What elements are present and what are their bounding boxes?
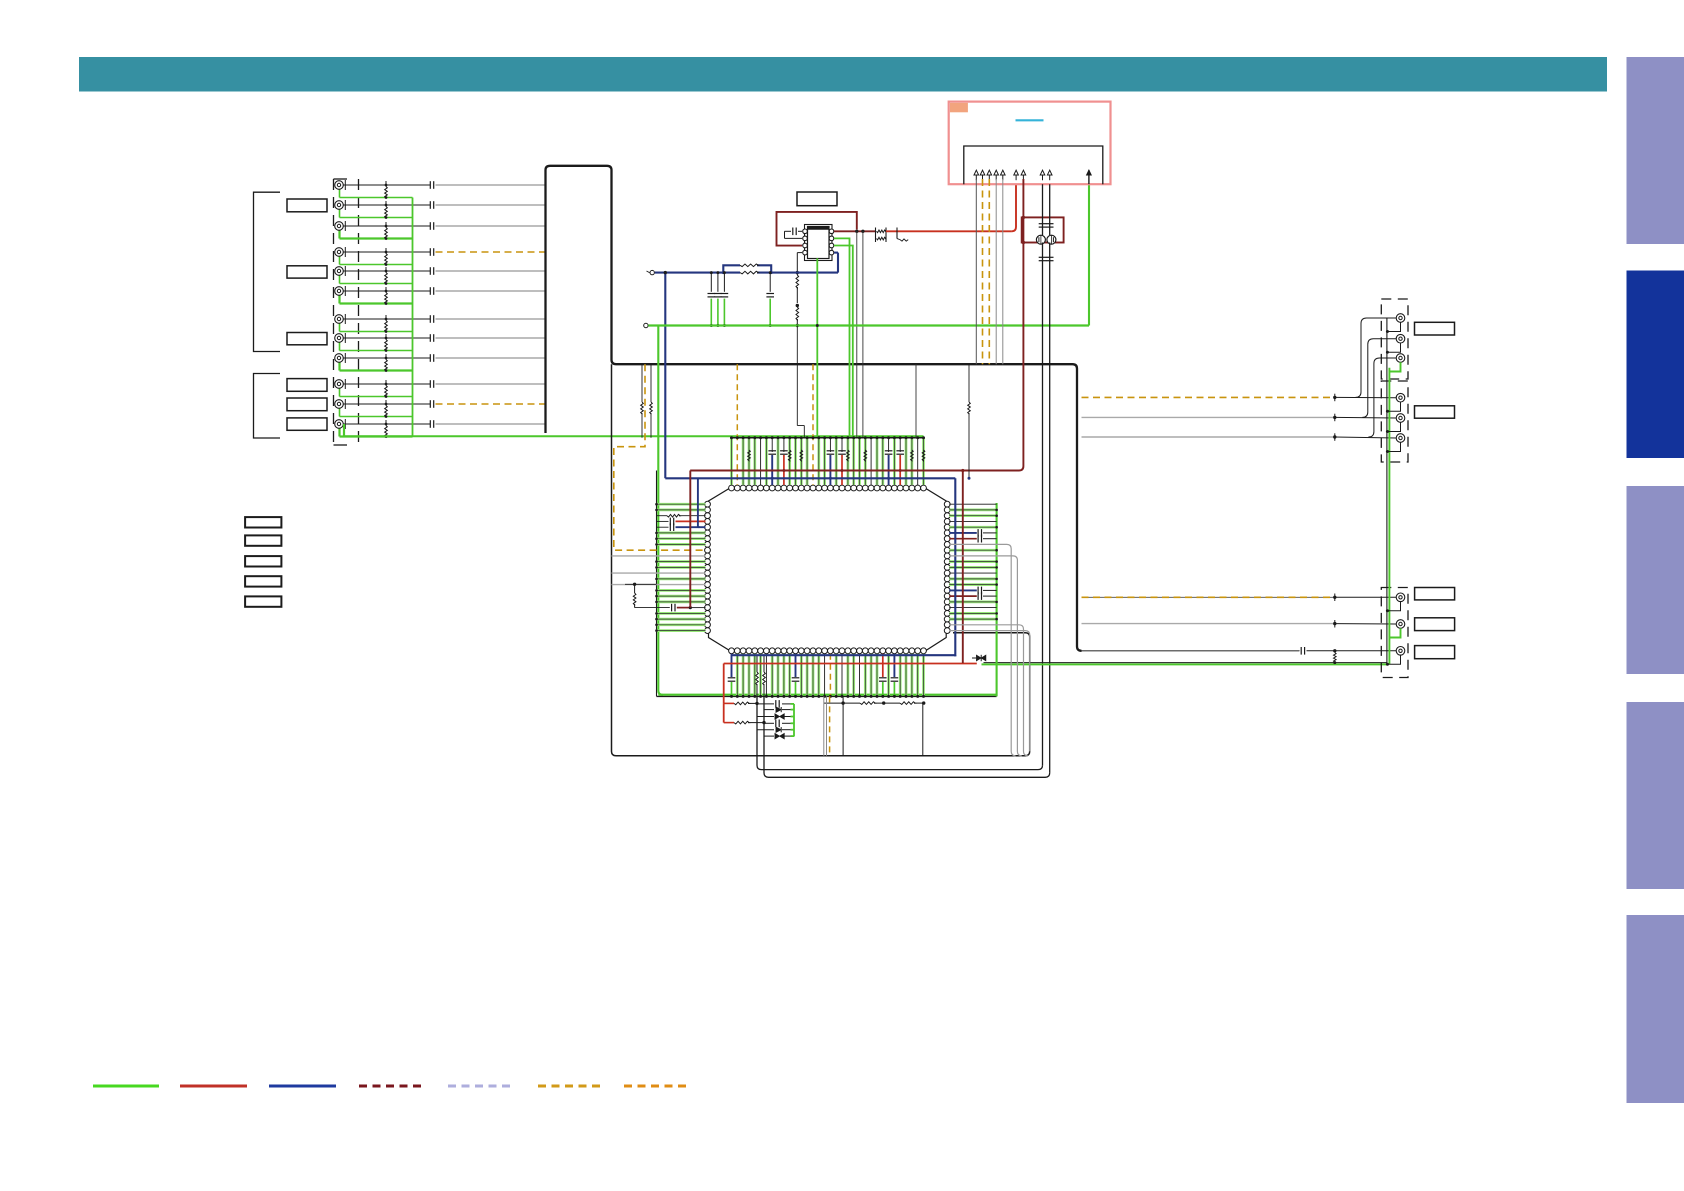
right label box 3 <box>1415 588 1455 600</box>
pulldown resistor row 10 <box>385 386 388 397</box>
U1 bottom pins <box>729 648 735 654</box>
green return segment row 12 <box>338 428 340 437</box>
left connector pin 9 <box>343 357 430 359</box>
pulldown resistor row 8 <box>385 340 388 351</box>
U1 right side green bus <box>996 503 998 696</box>
gray signal wire row 9 <box>436 357 546 359</box>
legend green solid wire swatch <box>93 1085 159 1088</box>
legend blue solid wire swatch <box>269 1085 336 1088</box>
gold dashed wire to middle-right connector <box>1082 596 1335 598</box>
right connector pin 8 <box>1396 620 1405 629</box>
gray signal wire to lower-right (B) <box>950 556 1022 756</box>
power connector body <box>964 146 1103 184</box>
pulldown resistor row 11 <box>385 406 388 417</box>
bus drop resistors left of U1 <box>641 364 643 402</box>
gray wire to right connector row3 <box>1082 436 1335 438</box>
left connector pin 3 <box>343 225 430 227</box>
long green wire to right connector <box>982 663 1389 665</box>
dark red bus above U1 <box>690 470 963 472</box>
navy bus above U1 <box>665 477 955 479</box>
green vertical bus of left connector <box>412 198 414 437</box>
red wire from resistors to power entry <box>886 230 1012 232</box>
sense wire 1 from power connector <box>975 179 977 364</box>
MOSFET switch protection box (dark red) <box>1022 217 1064 242</box>
gold dashed wire into U1 left side <box>614 364 706 550</box>
test point stub TP1 <box>896 228 898 239</box>
pulldown resistor row 7 <box>385 321 388 332</box>
green ground bus <box>648 324 1089 326</box>
MOSFET return loop A (bottom) <box>757 696 1043 769</box>
green ground bus below U1 <box>658 694 996 696</box>
right connector CN5 dashed outline <box>1381 588 1408 678</box>
right connector pin 5 <box>1396 414 1405 423</box>
green return wires from U2 <box>816 258 818 438</box>
series resistors in U1 top fan <box>748 450 751 461</box>
gray wire to middle-right connector row3 with cap <box>1298 650 1301 652</box>
U1 left pins <box>705 501 711 507</box>
right label box 1 <box>1415 322 1455 335</box>
left connector pin 7 <box>343 318 430 320</box>
gray signal wire row 5 <box>436 270 546 272</box>
U1 bottom pin bus <box>657 695 997 697</box>
sidebar tab 3 (purple) <box>1627 486 1684 674</box>
gold dashed wire 2 from power connector <box>988 179 990 364</box>
pulldown resistor row 6 <box>385 293 388 304</box>
green return segment row 1 <box>339 189 341 198</box>
power connector pin arrows <box>974 170 979 175</box>
right connector pin 1 <box>1396 314 1405 323</box>
revision marker (salmon) <box>950 103 968 113</box>
right connector pin 4 <box>1396 393 1405 402</box>
pulldown resistor row 12 <box>385 426 388 437</box>
right connector pin 9 <box>1396 647 1405 656</box>
legend lavender dashed wire swatch <box>448 1085 514 1088</box>
legend dark-red dashed wire swatch <box>359 1085 425 1088</box>
pulldown resistor row 2 <box>385 207 388 218</box>
power connector ground arrow (filled) <box>1087 170 1092 175</box>
U1 left fan wires <box>657 503 706 506</box>
pulldown resistor at middle-right connector <box>1334 653 1337 663</box>
gray wire to middle-right connector row2 <box>1082 623 1335 625</box>
left bracket group 2 <box>254 374 281 439</box>
riser to U1 top bus <box>915 364 917 438</box>
green return segment row 4 <box>339 256 341 265</box>
gold dashed wire to right connector row1 <box>1082 396 1335 398</box>
green riser from power connector <box>1088 185 1090 326</box>
divider riser jog <box>796 326 798 426</box>
left connector pin 4 <box>343 251 430 253</box>
left connector pin 2 <box>343 204 430 206</box>
left connector dashed outline <box>333 179 335 445</box>
gray signal wire row 1 <box>436 184 546 186</box>
gray signal wire row 6 <box>436 290 546 292</box>
sidebar tab 1 (purple) <box>1627 57 1684 244</box>
right connector pin 6 <box>1396 434 1405 443</box>
right label box 5 <box>1415 646 1455 659</box>
left bracket group 1 <box>254 192 281 351</box>
legend orange dashed wire swatch <box>624 1085 691 1088</box>
right connector return bus (green) <box>1388 368 1390 665</box>
main signal bus (left connector to right side) <box>546 166 1082 651</box>
IC U2 label box <box>797 192 837 206</box>
gold dashed wire 1 from power connector <box>982 179 984 364</box>
MOSFET Q2 <box>1047 235 1056 244</box>
connector CN1 label box 1 <box>287 199 327 212</box>
diode array below U1 <box>757 703 774 705</box>
green stub bus in diode array <box>793 704 795 737</box>
U1 right fan wires <box>949 503 996 505</box>
navy branch riser on U1 left pin 5 <box>697 478 699 527</box>
right connector pin 2 <box>1396 334 1405 343</box>
U1 top pins <box>729 485 735 491</box>
return wire beside long green <box>984 662 1388 664</box>
switched drain wire A <box>1042 184 1044 235</box>
pulldown resistor row 3 <box>385 228 388 239</box>
dark red vertical right of U1 <box>962 471 964 664</box>
connector CN2 label box 3 <box>287 418 327 430</box>
gray signal wire row 7 <box>436 318 546 320</box>
U1 left side bus (green) <box>658 326 663 695</box>
sidebar tab 4 (purple) <box>1627 702 1684 889</box>
junction dots at colored bus crossings <box>771 477 774 480</box>
long green wire from left connector bottom <box>343 424 345 437</box>
connector CN1 label box 3 <box>287 333 327 345</box>
green return segment row 2 <box>339 209 341 218</box>
U1 right pins <box>944 501 950 507</box>
MOSFET return loop B (bottom) <box>764 696 1050 777</box>
left connector pin 12 <box>343 423 430 425</box>
legend red solid wire swatch <box>180 1085 247 1088</box>
U2 left pins <box>803 229 808 234</box>
right connector CN4 dashed outline <box>1381 381 1408 462</box>
resistor drop right of U1 <box>968 364 970 402</box>
right connector pin 3 <box>1396 354 1405 363</box>
resistor row R21/R22 below U1 <box>824 702 860 704</box>
dark red supply loop around U2 <box>777 212 857 246</box>
resistor divider R11/R12 below U2 <box>797 252 802 254</box>
left connector pin 6 <box>343 290 430 292</box>
pull network on U1 left fan <box>633 583 636 586</box>
sidebar tab 2 (blue) <box>1627 271 1684 459</box>
schematic block outline (left/bottom) <box>612 364 1030 756</box>
microcontroller U1 (QFP-114 body) <box>709 488 947 651</box>
green return segment row 11 <box>339 408 341 417</box>
U1 left side bus (black) <box>656 471 658 697</box>
green return segment row 3 <box>338 230 340 239</box>
navy wire into U1 left pin 5 <box>657 526 669 528</box>
connector CN2 label box 2 <box>287 398 327 411</box>
op-amp U2 (SOIC-8 socket outline) <box>805 225 833 261</box>
U2 right pins <box>829 229 834 234</box>
series resistor row on U1 left pin 3 <box>657 515 668 517</box>
power supply connector block (pink highlight box) <box>949 102 1111 185</box>
U1 top pin bus <box>730 437 925 439</box>
red wire into U1 left pin 4 <box>657 520 669 522</box>
right label box 4 <box>1415 618 1455 631</box>
gray wire 2 from power connector <box>1002 179 1004 364</box>
sidebar tab 5 (purple) <box>1627 915 1684 1103</box>
gray signal wire row 10 <box>436 383 546 385</box>
left connector pin 5 <box>343 270 430 272</box>
op-amp U2 (SOIC-8 body) <box>808 227 830 259</box>
navy vertical feed to lower logic <box>664 273 666 479</box>
terminal for ground rail <box>644 323 648 327</box>
risers from U2 output line <box>856 231 858 437</box>
power feed red wire rising into power connector <box>1012 185 1016 232</box>
terminal for 3.3V rail <box>650 270 654 274</box>
capacitor C10 at U2 pin1 <box>798 230 802 232</box>
black wire with cap into U1 left pin 19 <box>635 607 670 609</box>
pulldown resistor row 5 <box>385 273 388 284</box>
gray signal wire to lower-right (A) <box>950 544 1016 755</box>
switched drain wire B <box>1049 184 1051 235</box>
green return segment row 5 <box>339 275 341 284</box>
connector CN2 label box 1 <box>287 379 327 392</box>
reference designator box list <box>245 517 281 527</box>
gray wire 1 from power connector <box>995 179 997 364</box>
pulldown resistor row 9 <box>385 360 388 371</box>
green return segment row 8 <box>339 342 341 351</box>
decoupling capacitors C1-C4 on 3.3V rail <box>710 273 712 292</box>
red bus below U1 <box>724 663 977 665</box>
gray signal wire row 8 <box>436 337 546 339</box>
bus drop wires below U1 to outline <box>823 696 825 755</box>
green return segment row 9 <box>338 362 340 371</box>
left connector pin 10 <box>343 383 430 385</box>
gray signal wire to lower-right (C) <box>950 625 1028 756</box>
green return segment row 10 <box>339 388 341 397</box>
U1 bottom fan wires <box>731 654 733 677</box>
right connector CN3 dashed outline <box>1381 299 1408 379</box>
U1 top fan wires <box>730 438 733 485</box>
left connector pin 1 <box>343 184 430 186</box>
MOSFET Q1 <box>1036 235 1045 244</box>
gray signal wire row 3 <box>436 225 546 227</box>
navy vertical right of U1 <box>954 478 956 656</box>
pulldown resistor row 1 <box>385 187 388 198</box>
gray signal wire to lower-right (D) <box>950 631 1030 752</box>
protection diodes D5/D6 <box>972 657 976 659</box>
left connector pin 8 <box>343 337 430 339</box>
gray wire to right connector row2 <box>1082 416 1335 418</box>
series capacitors below MOSFET box <box>1042 243 1044 766</box>
gold dashed signal wire row 11 <box>436 403 546 405</box>
dark red output wire of U2 with parallel resistors R13/R14 <box>834 230 876 232</box>
green return segment row 7 <box>339 323 341 332</box>
gray signal wire row 12 <box>436 423 546 425</box>
legend gold dashed wire swatch <box>538 1085 604 1088</box>
dark red main supply wire down the middle <box>690 179 1023 471</box>
pull resistors on switch return wires <box>756 655 758 672</box>
pulldown resistor row 4 <box>385 254 388 265</box>
right connector return bus (black) <box>1386 318 1388 663</box>
navy bus below U1 <box>732 654 956 656</box>
gold dashed signal wire row 4 <box>436 251 546 253</box>
left connector pin 11 <box>343 403 430 405</box>
right label box 2 <box>1415 406 1455 418</box>
right connector pin 7 <box>1396 593 1405 602</box>
dark red branch into U1 left pins <box>689 471 691 608</box>
connector CN1 label box 2 <box>287 266 327 278</box>
green return segment row 6 <box>338 295 340 304</box>
hyperlink underline (cyan) <box>1016 119 1044 121</box>
teal header bar <box>79 57 1607 92</box>
ferrite bead FB2 in main rail <box>740 271 758 274</box>
gray signal wire row 2 <box>436 204 546 206</box>
navy 3.3V rail wire <box>655 272 740 274</box>
ferrite bead bypass loop FB1 <box>723 265 740 272</box>
red feed with resistors below U1 <box>723 664 725 704</box>
